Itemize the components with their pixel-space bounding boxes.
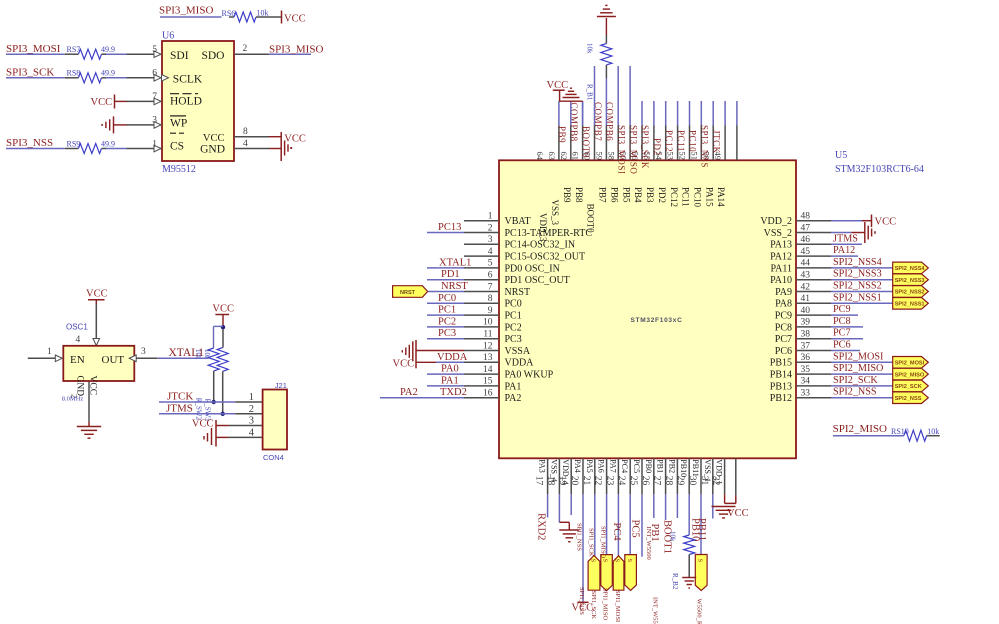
svg-text:SPI2_NSS1: SPI2_NSS1 xyxy=(833,292,882,303)
svg-text:PC5: PC5 xyxy=(632,459,641,473)
svg-text:JTCK: JTCK xyxy=(711,130,721,154)
svg-text:49.9: 49.9 xyxy=(101,69,115,78)
svg-text:SPI3_SCK: SPI3_SCK xyxy=(6,66,54,78)
svg-text:59: 59 xyxy=(595,152,605,161)
svg-text:VCC: VCC xyxy=(875,216,897,227)
svg-text:44: 44 xyxy=(801,259,811,269)
svg-text:INT_W5500: INT_W5500 xyxy=(652,597,659,624)
svg-text:21: 21 xyxy=(581,476,591,486)
svg-text:8: 8 xyxy=(488,294,493,304)
svg-text:25: 25 xyxy=(628,476,638,486)
svg-text:RS9: RS9 xyxy=(67,139,81,148)
svg-text:7: 7 xyxy=(152,92,157,102)
svg-text:2: 2 xyxy=(243,44,248,54)
svg-text:W5500_RST: W5500_RST xyxy=(696,599,703,624)
svg-text:PB11: PB11 xyxy=(691,459,700,477)
svg-text:PA3: PA3 xyxy=(538,459,547,473)
svg-text:PC0: PC0 xyxy=(438,293,456,304)
svg-text:39: 39 xyxy=(801,318,811,328)
svg-text:PA9: PA9 xyxy=(775,287,792,298)
svg-text:SPI3_MOSI: SPI3_MOSI xyxy=(6,43,61,55)
svg-text:SDI: SDI xyxy=(170,50,189,62)
svg-text:VCC: VCC xyxy=(547,80,569,91)
svg-text:PC5: PC5 xyxy=(630,520,641,538)
svg-text:PA1: PA1 xyxy=(505,381,522,392)
svg-text:10k: 10k xyxy=(669,531,677,542)
svg-text:SPI2_SCK: SPI2_SCK xyxy=(833,375,878,386)
svg-text:9: 9 xyxy=(488,306,493,316)
svg-text:SPI2_NSS3: SPI2_NSS3 xyxy=(833,269,882,280)
svg-text:SPI3_NSS: SPI3_NSS xyxy=(700,125,710,168)
svg-text:PB13: PB13 xyxy=(770,381,792,392)
svg-text:PC10: PC10 xyxy=(693,187,703,208)
svg-text:38: 38 xyxy=(801,330,811,340)
svg-text:SPI2_NSS2: SPI2_NSS2 xyxy=(833,281,882,292)
svg-text:19: 19 xyxy=(557,476,567,486)
svg-text:SPI1_NSS: SPI1_NSS xyxy=(578,587,585,615)
svg-text:SPI2_NSS: SPI2_NSS xyxy=(833,387,877,398)
svg-text:SPI2_MOSI: SPI2_MOSI xyxy=(833,351,884,362)
svg-text:13: 13 xyxy=(483,353,493,363)
svg-text:XTAL1: XTAL1 xyxy=(169,347,205,359)
svg-text:SPI2_MOSI: SPI2_MOSI xyxy=(895,361,925,367)
svg-text:VCC: VCC xyxy=(284,13,306,24)
svg-text:6: 6 xyxy=(488,271,493,281)
svg-text:PD2: PD2 xyxy=(652,138,662,156)
svg-text:5: 5 xyxy=(488,259,493,269)
svg-text:7: 7 xyxy=(488,282,493,292)
svg-text:PA4: PA4 xyxy=(573,459,582,473)
svg-text:PA2: PA2 xyxy=(400,387,418,398)
svg-text:3: 3 xyxy=(488,235,493,245)
svg-text:STM32F103xC: STM32F103xC xyxy=(631,317,683,324)
svg-text:OUT: OUT xyxy=(102,354,125,366)
svg-text:43: 43 xyxy=(801,271,811,281)
svg-text:PC7: PC7 xyxy=(833,328,851,339)
svg-text:10k: 10k xyxy=(927,427,939,436)
svg-text:PA15: PA15 xyxy=(704,187,714,207)
svg-text:SPI1_MOSI: SPI1_MOSI xyxy=(614,590,621,622)
svg-text:PB8: PB8 xyxy=(574,187,584,203)
svg-text:PC2: PC2 xyxy=(438,316,456,327)
svg-text:PC7: PC7 xyxy=(775,334,792,345)
svg-text:EN: EN xyxy=(70,354,85,366)
svg-text:52: 52 xyxy=(678,152,688,161)
svg-text:2: 2 xyxy=(249,404,254,415)
svg-text:29: 29 xyxy=(675,476,685,486)
svg-text:PB15: PB15 xyxy=(770,358,792,369)
svg-text:PA5: PA5 xyxy=(585,459,594,473)
svg-text:22: 22 xyxy=(593,476,603,486)
svg-text:47: 47 xyxy=(801,223,811,233)
svg-text:OSC1: OSC1 xyxy=(66,323,88,332)
svg-text:SPI1_NSS: SPI1_NSS xyxy=(576,523,583,551)
svg-text:PA14: PA14 xyxy=(716,187,726,207)
svg-text:34: 34 xyxy=(801,377,811,387)
svg-text:JTMS: JTMS xyxy=(166,402,193,414)
svg-text:PD0 OSC_IN: PD0 OSC_IN xyxy=(505,263,560,274)
svg-text:24: 24 xyxy=(616,476,626,486)
svg-text:8: 8 xyxy=(243,127,248,137)
svg-text:PA8: PA8 xyxy=(775,299,792,310)
svg-text:PC8: PC8 xyxy=(775,322,792,333)
svg-text:3: 3 xyxy=(249,416,254,427)
svg-text:PB4: PB4 xyxy=(633,187,643,203)
svg-text:3: 3 xyxy=(141,347,146,357)
svg-text:1: 1 xyxy=(249,392,254,403)
svg-text:PC4: PC4 xyxy=(620,459,629,473)
svg-text:R_B1: R_B1 xyxy=(586,84,594,101)
svg-text:SPI2_MISO: SPI2_MISO xyxy=(833,423,887,435)
svg-text:PC6: PC6 xyxy=(833,340,851,351)
svg-text:VCC: VCC xyxy=(88,376,98,396)
svg-text:SPI1_SCK: SPI1_SCK xyxy=(588,528,595,557)
svg-text:VCC: VCC xyxy=(192,419,214,430)
svg-text:PC4: PC4 xyxy=(611,523,622,542)
svg-text:R_B2: R_B2 xyxy=(671,573,679,590)
svg-text:SPI3_MOSI: SPI3_MOSI xyxy=(617,125,627,174)
svg-text:PC13: PC13 xyxy=(438,222,461,233)
svg-text:PC8: PC8 xyxy=(833,316,851,327)
svg-text:4: 4 xyxy=(249,428,255,439)
svg-text:COMPB7: COMPB7 xyxy=(593,102,603,141)
svg-text:STM32F103RCT6-64: STM32F103RCT6-64 xyxy=(835,164,924,175)
svg-text:31: 31 xyxy=(699,476,709,486)
svg-text:XTAL1: XTAL1 xyxy=(439,257,471,268)
svg-text:PA12: PA12 xyxy=(770,252,792,263)
svg-text:PA11: PA11 xyxy=(771,263,793,274)
svg-text:64: 64 xyxy=(535,152,545,161)
svg-text:1: 1 xyxy=(152,139,157,149)
svg-text:PA0 WKUP: PA0 WKUP xyxy=(505,370,554,381)
svg-text:U6: U6 xyxy=(162,31,174,42)
svg-text:SDO: SDO xyxy=(201,50,224,62)
svg-text:VDD_3: VDD_3 xyxy=(538,213,548,242)
svg-text:4: 4 xyxy=(488,247,493,257)
svg-text:RS7: RS7 xyxy=(67,45,81,54)
svg-text:4: 4 xyxy=(76,335,81,345)
svg-text:VCC: VCC xyxy=(86,289,108,300)
svg-text:RS8: RS8 xyxy=(67,69,81,78)
svg-text:JTMS: JTMS xyxy=(833,233,858,244)
svg-text:SPI2_NSS3: SPI2_NSS3 xyxy=(895,278,925,284)
svg-text:PB10: PB10 xyxy=(679,459,688,477)
svg-text:PC3: PC3 xyxy=(505,334,522,345)
svg-text:63: 63 xyxy=(547,152,557,161)
svg-text:46: 46 xyxy=(801,235,811,245)
svg-text:VBAT: VBAT xyxy=(505,216,531,227)
svg-text:S: S xyxy=(697,559,704,563)
svg-text:VSS_3: VSS_3 xyxy=(550,200,560,226)
svg-text:1: 1 xyxy=(47,347,52,357)
svg-text:NRST: NRST xyxy=(441,281,468,292)
svg-text:VDDA: VDDA xyxy=(437,352,468,363)
svg-text:GND: GND xyxy=(200,144,225,156)
svg-text:CON4: CON4 xyxy=(263,453,284,462)
svg-text:VDDA: VDDA xyxy=(505,358,535,369)
svg-text:PB6: PB6 xyxy=(609,187,619,203)
svg-text:10: 10 xyxy=(483,318,493,328)
svg-text:PC2: PC2 xyxy=(505,322,522,333)
svg-text:41: 41 xyxy=(801,294,811,304)
svg-text:SPI2_NSS4: SPI2_NSS4 xyxy=(833,257,882,268)
svg-text:NRST: NRST xyxy=(400,290,416,296)
svg-text:VCC: VCC xyxy=(727,508,749,519)
svg-text:27: 27 xyxy=(652,476,662,486)
svg-text:PB9: PB9 xyxy=(557,126,567,143)
svg-text:PD2: PD2 xyxy=(657,187,667,203)
svg-text:HOLD: HOLD xyxy=(170,96,202,108)
svg-text:SPI1_SCK: SPI1_SCK xyxy=(590,591,597,620)
svg-text:SPI1_MISO: SPI1_MISO xyxy=(602,588,609,620)
svg-text:SCLK: SCLK xyxy=(173,73,203,85)
svg-text:VSSA: VSSA xyxy=(505,346,531,357)
svg-text:23: 23 xyxy=(604,476,614,486)
svg-text:PA2: PA2 xyxy=(505,393,522,404)
svg-text:10k: 10k xyxy=(257,9,269,18)
svg-text:49.9: 49.9 xyxy=(101,45,115,54)
svg-text:49.9: 49.9 xyxy=(101,139,115,148)
svg-text:VCC: VCC xyxy=(284,134,306,145)
svg-text:PB9: PB9 xyxy=(562,187,572,203)
svg-text:PC6: PC6 xyxy=(775,346,792,357)
svg-text:SPI3_SCK: SPI3_SCK xyxy=(640,125,650,169)
svg-text:PA1: PA1 xyxy=(441,375,459,386)
svg-text:36: 36 xyxy=(801,353,811,363)
svg-text:RXD2: RXD2 xyxy=(536,513,547,540)
svg-text:51: 51 xyxy=(689,152,699,161)
svg-text:PA13: PA13 xyxy=(770,240,792,251)
svg-text:S: S xyxy=(589,559,596,563)
svg-text:35: 35 xyxy=(801,365,811,375)
svg-text:U5: U5 xyxy=(835,150,847,161)
svg-text:GND: GND xyxy=(75,376,85,397)
svg-text:33: 33 xyxy=(801,389,811,399)
svg-text:PC9: PC9 xyxy=(775,311,792,322)
svg-text:40: 40 xyxy=(801,306,811,316)
svg-text:CS: CS xyxy=(170,141,184,153)
svg-text:14: 14 xyxy=(483,365,493,375)
svg-text:SPI1_MISO: SPI1_MISO xyxy=(600,526,607,558)
svg-text:PC1: PC1 xyxy=(438,305,456,316)
svg-text:VSS_2: VSS_2 xyxy=(764,228,792,239)
svg-text:62: 62 xyxy=(559,152,569,161)
svg-text:TXD2: TXD2 xyxy=(440,387,467,398)
svg-text:SPI3_MISO: SPI3_MISO xyxy=(628,125,638,174)
svg-text:PA6: PA6 xyxy=(597,459,606,473)
svg-text:VCC: VCC xyxy=(212,304,234,315)
svg-text:20: 20 xyxy=(569,476,579,486)
svg-text:SPI2_MISO: SPI2_MISO xyxy=(833,363,883,374)
svg-text:32: 32 xyxy=(711,476,721,486)
svg-text:42: 42 xyxy=(801,282,811,292)
svg-text:PB11: PB11 xyxy=(696,518,707,541)
svg-text:37: 37 xyxy=(801,341,811,351)
svg-text:PD1: PD1 xyxy=(441,269,460,280)
svg-text:28: 28 xyxy=(663,476,673,486)
svg-text:11: 11 xyxy=(483,330,492,340)
svg-text:PB12: PB12 xyxy=(770,393,792,404)
svg-text:58: 58 xyxy=(606,152,616,161)
svg-text:R_SW2: R_SW2 xyxy=(194,398,202,421)
svg-text:2: 2 xyxy=(488,223,493,233)
svg-text:PA10: PA10 xyxy=(770,275,792,286)
svg-text:PB5: PB5 xyxy=(621,187,631,203)
svg-text:12: 12 xyxy=(483,341,493,351)
svg-text:PA12: PA12 xyxy=(833,245,855,256)
svg-text:17: 17 xyxy=(534,476,544,486)
svg-text:S: S xyxy=(602,559,609,563)
svg-text:PB14: PB14 xyxy=(770,370,792,381)
svg-text:NRST: NRST xyxy=(505,287,531,298)
svg-text:PC1: PC1 xyxy=(505,311,522,322)
svg-text:SPI3_NSS: SPI3_NSS xyxy=(6,137,53,149)
svg-text:1: 1 xyxy=(488,212,493,222)
svg-text:8.0MHz: 8.0MHz xyxy=(62,396,84,403)
svg-text:S: S xyxy=(614,559,621,563)
svg-text:VCC: VCC xyxy=(91,97,113,108)
svg-text:SPI2_SCK: SPI2_SCK xyxy=(895,384,922,390)
svg-text:SPI2_NSS1: SPI2_NSS1 xyxy=(895,302,925,308)
svg-text:30: 30 xyxy=(687,476,697,486)
svg-text:VCC: VCC xyxy=(203,133,225,144)
svg-text:PC11: PC11 xyxy=(676,130,686,152)
svg-text:BOOT0: BOOT0 xyxy=(581,126,591,158)
svg-text:VCC: VCC xyxy=(393,358,415,369)
svg-text:5: 5 xyxy=(152,45,157,55)
svg-text:S: S xyxy=(626,559,633,563)
svg-text:PB2: PB2 xyxy=(667,459,676,473)
svg-text:PA7: PA7 xyxy=(608,459,617,473)
svg-text:SPI2_NSS: SPI2_NSS xyxy=(895,396,922,402)
svg-text:PC15-OSC32_OUT: PC15-OSC32_OUT xyxy=(505,252,586,263)
svg-text:M95512: M95512 xyxy=(162,164,196,175)
svg-text:6: 6 xyxy=(152,69,157,79)
svg-text:PC3: PC3 xyxy=(438,328,456,339)
svg-text:SPI2_NSS4: SPI2_NSS4 xyxy=(895,266,926,272)
svg-text:WP: WP xyxy=(170,118,187,130)
svg-text:10k: 10k xyxy=(586,43,594,54)
svg-text:PB1: PB1 xyxy=(656,459,665,473)
svg-text:PC10: PC10 xyxy=(688,130,698,152)
svg-text:61: 61 xyxy=(571,152,581,161)
svg-text:SPI2_MISO: SPI2_MISO xyxy=(895,372,925,378)
svg-text:PD1 OSC_OUT: PD1 OSC_OUT xyxy=(505,275,570,286)
svg-text:15: 15 xyxy=(483,377,493,387)
svg-text:PC9: PC9 xyxy=(833,304,851,315)
svg-text:BOOT0: BOOT0 xyxy=(586,204,596,233)
svg-text:4: 4 xyxy=(243,139,248,149)
svg-text:PC12: PC12 xyxy=(669,187,679,207)
svg-text:PC11: PC11 xyxy=(681,187,691,207)
svg-text:PB0: PB0 xyxy=(644,459,653,473)
svg-text:JTCK: JTCK xyxy=(167,391,193,403)
svg-text:16: 16 xyxy=(483,389,493,399)
svg-text:45: 45 xyxy=(801,247,811,257)
svg-text:18: 18 xyxy=(545,476,555,486)
svg-text:VDD_2: VDD_2 xyxy=(760,216,792,227)
svg-text:48: 48 xyxy=(801,212,811,222)
svg-text:PC12: PC12 xyxy=(664,130,674,152)
svg-text:53: 53 xyxy=(666,152,676,161)
svg-text:3: 3 xyxy=(152,116,157,126)
svg-text:SPI2_NSS2: SPI2_NSS2 xyxy=(895,290,925,296)
svg-text:26: 26 xyxy=(640,476,650,486)
svg-text:PB7: PB7 xyxy=(598,187,608,203)
svg-text:PB1: PB1 xyxy=(649,524,660,542)
svg-text:PB3: PB3 xyxy=(645,187,655,203)
svg-text:SPI3_MISO: SPI3_MISO xyxy=(159,4,213,16)
svg-text:SPI3_MISO: SPI3_MISO xyxy=(269,43,323,55)
svg-text:PA0: PA0 xyxy=(441,364,459,375)
svg-text:PC0: PC0 xyxy=(505,299,522,310)
svg-text:J21: J21 xyxy=(275,381,287,390)
